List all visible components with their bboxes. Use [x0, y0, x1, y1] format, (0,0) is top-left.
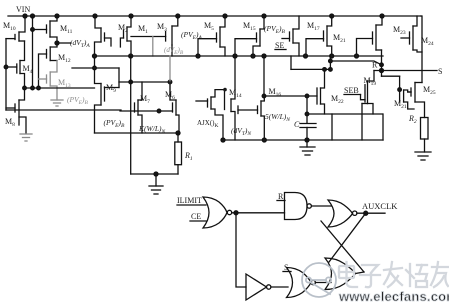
- wire y114 link: [307, 113, 382, 115]
- wire VIN rail: [8, 15, 421, 17]
- svg-text:S: S: [438, 67, 442, 76]
- wire y140 right vertical: [382, 114, 384, 140]
- junction y81 x170: [168, 80, 172, 84]
- wire M21 gate drop: [399, 76, 401, 102]
- svg-text:www.elecfans.com: www.elecfans.com: [338, 289, 449, 304]
- junction y133 x178: [176, 131, 180, 135]
- wire OR3 out: [315, 282, 331, 284]
- junction mid rail x252: [251, 54, 255, 58]
- wire bottom link y174: [131, 173, 178, 175]
- junction R stub a: [329, 59, 333, 63]
- wire SEB underline: [344, 94, 361, 96]
- transistor M19: [362, 71, 374, 115]
- wire source row y89: [25, 87, 95, 89]
- resistor R2: [421, 118, 429, 153]
- junction M21 gate: [398, 88, 402, 92]
- wire gate bus drop x264: [263, 56, 265, 96]
- wire mid rail y56: [95, 55, 384, 57]
- wire strap x332: [331, 114, 333, 140]
- wire gate bus y97: [264, 95, 317, 97]
- junction on VIN rail x95: [93, 14, 97, 18]
- watermark char shao: [406, 264, 427, 287]
- transistor M6: [135, 82, 180, 133]
- svg-text:AUXCLK: AUXCLK: [362, 201, 398, 211]
- gate NAND: [285, 193, 312, 220]
- transistor M1: [120, 16, 131, 56]
- transistor M2: [95, 16, 112, 68]
- transistor M11: [33, 16, 58, 43]
- svg-text:R: R: [278, 192, 284, 201]
- junction on VIN rail x171: [176, 14, 180, 18]
- ground under C: [300, 147, 315, 155]
- wire AUXCLK out: [357, 212, 385, 214]
- junction y140 x307: [305, 138, 309, 142]
- wire right rail corner: [421, 16, 422, 83]
- transistor M24: [401, 16, 422, 52]
- transistor T1 ajxc: [196, 90, 225, 140]
- wire ILIMIT underline: [177, 204, 206, 206]
- transistor M3: [131, 16, 178, 56]
- junction y89 x25: [23, 86, 27, 90]
- junction mid rail x356: [355, 54, 359, 58]
- transistor M17: [306, 16, 332, 56]
- gate INV: [246, 274, 271, 300]
- junction y114 x307: [305, 112, 309, 116]
- junction y89 x38: [37, 86, 41, 90]
- junction mid rail x331: [330, 54, 334, 58]
- junction on VIN rail x32: [31, 14, 35, 18]
- svg-text:C: C: [294, 120, 300, 129]
- junction on VIN rail x225: [223, 14, 227, 18]
- transistor M12: [39, 43, 58, 88]
- wire y68 link: [72, 67, 119, 69]
- wire gray vertical x170: [169, 56, 171, 100]
- wire node dVTA horizontal: [57, 42, 71, 44]
- capacitor C: [300, 96, 316, 140]
- wire y68 step down: [118, 68, 120, 88]
- ground under M13 gray: [51, 100, 63, 106]
- junction on VIN rail x57: [55, 14, 59, 18]
- transistor SE: [282, 16, 299, 56]
- wire NOR1 out: [232, 212, 285, 214]
- junction y140 x270: [262, 138, 266, 142]
- junction M11 gate tap: [31, 28, 35, 32]
- svg-text:SE: SE: [275, 41, 284, 50]
- junction on VIN rail x264: [262, 14, 266, 18]
- junction mid rail x95: [93, 54, 97, 58]
- wire R node stub: [291, 56, 382, 69]
- junction M4 gate on feedback: [4, 65, 8, 69]
- gate NOR4 bottom latch: [325, 258, 356, 290]
- wire NOR4 out stub: [356, 272, 365, 274]
- transistor M13 gray: [39, 61, 58, 101]
- wire gray tap of gate line: [152, 37, 154, 57]
- watermark char fa: [384, 262, 402, 287]
- wire y81 link: [119, 81, 170, 83]
- junction on VIN rail x131: [129, 14, 133, 18]
- junction y140 x226: [221, 138, 225, 142]
- junction S node: [380, 69, 384, 73]
- junction x264 y97: [262, 94, 266, 98]
- transistor M10: [6, 16, 25, 41]
- junction gate tie M6 M7: [157, 109, 161, 113]
- junction mid rail x235: [233, 54, 237, 58]
- junction y68 x94: [93, 66, 97, 70]
- junction on VIN rail x382: [380, 14, 384, 18]
- svg-text:CE: CE: [191, 212, 201, 221]
- transistor M15: [235, 16, 264, 56]
- wire y140 bottom bus: [223, 139, 383, 141]
- ground main: [149, 186, 163, 194]
- junction on VIN rail x25: [23, 14, 27, 18]
- transistor M5: [198, 16, 225, 56]
- wire M10 gate feedback vertical: [5, 39, 7, 110]
- watermark char you: [431, 262, 448, 287]
- junction mid rail x264: [262, 54, 266, 58]
- transistor M9: [95, 68, 120, 133]
- resistor R1: [175, 133, 182, 174]
- svg-text:VIN: VIN: [16, 5, 30, 14]
- transistor M14: [223, 56, 235, 140]
- junction M22 drain: [323, 68, 327, 72]
- wire K(W/L) node y133: [95, 132, 179, 134]
- transistor M21top: [357, 16, 383, 56]
- watermark char zi: [360, 265, 380, 287]
- wire SE underline: [275, 49, 286, 51]
- wire INV out: [271, 286, 288, 288]
- gate OR3: [287, 268, 316, 298]
- junction mid rail x130: [129, 54, 133, 58]
- wire R underline: [277, 200, 285, 202]
- wire NAND out: [311, 205, 331, 207]
- junction y174 x156: [154, 172, 158, 176]
- ground under R2: [415, 152, 431, 160]
- wire cross B: [321, 221, 364, 272]
- wire low rail y110: [6, 109, 121, 111]
- svg-text:ILIMIT: ILIMIT: [177, 196, 202, 205]
- wire M11 gate tap vertical x32: [32, 16, 34, 88]
- svg-text:SEB: SEB: [344, 86, 359, 95]
- transistor M16: [238, 96, 264, 140]
- svg-text:R: R: [372, 61, 378, 70]
- wire S line: [374, 70, 437, 72]
- junction mid rail x305: [304, 54, 308, 58]
- wire SEB to M19 gate: [361, 95, 366, 100]
- wire ground stem: [155, 174, 157, 186]
- transistor M7: [120, 82, 142, 133]
- transistor M25: [408, 83, 425, 118]
- gate NOR2 top latch: [328, 200, 357, 227]
- junction y81 x130: [129, 80, 133, 84]
- transistor M22: [317, 69, 325, 114]
- watermark char dian: [339, 262, 357, 287]
- junction AUXCLK: [364, 211, 368, 215]
- junction NOR1 out: [234, 211, 238, 215]
- transistor M21: [404, 90, 414, 109]
- wire S underline: [283, 271, 291, 273]
- watermark logo circle: [302, 263, 336, 297]
- ground under M8 gray: [20, 134, 32, 141]
- wire cross A: [329, 213, 366, 262]
- wire CE underline: [190, 220, 206, 222]
- transistor M4: [6, 41, 25, 88]
- junction R stub b: [329, 68, 333, 72]
- wire down to inverter: [236, 213, 246, 287]
- wire cap ground stem: [306, 140, 308, 147]
- wire M20 source vertical: [361, 104, 363, 141]
- junction on VIN rail x331: [330, 14, 334, 18]
- junction mid rail x198: [196, 54, 200, 58]
- wire tail current vertical x130: [130, 56, 132, 174]
- transistor M8: [6, 88, 26, 133]
- gate NOR1: [203, 197, 232, 228]
- junction node dVTA top: [55, 41, 59, 45]
